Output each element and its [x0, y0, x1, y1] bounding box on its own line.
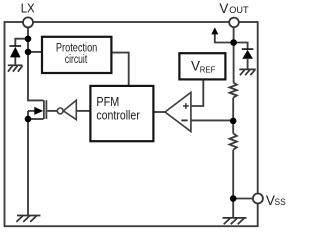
svg-text:Protection: Protection	[56, 43, 97, 55]
svg-text:LX: LX	[21, 0, 35, 15]
svg-text:circuit: circuit	[65, 54, 88, 66]
svg-text:REF: REF	[200, 64, 216, 74]
svg-text:controller: controller	[96, 108, 139, 122]
svg-text:OUT: OUT	[229, 5, 249, 16]
svg-text:V: V	[191, 59, 200, 74]
svg-text:V: V	[219, 1, 228, 16]
svg-text:PFM: PFM	[96, 95, 119, 109]
svg-text:SS: SS	[275, 197, 286, 207]
